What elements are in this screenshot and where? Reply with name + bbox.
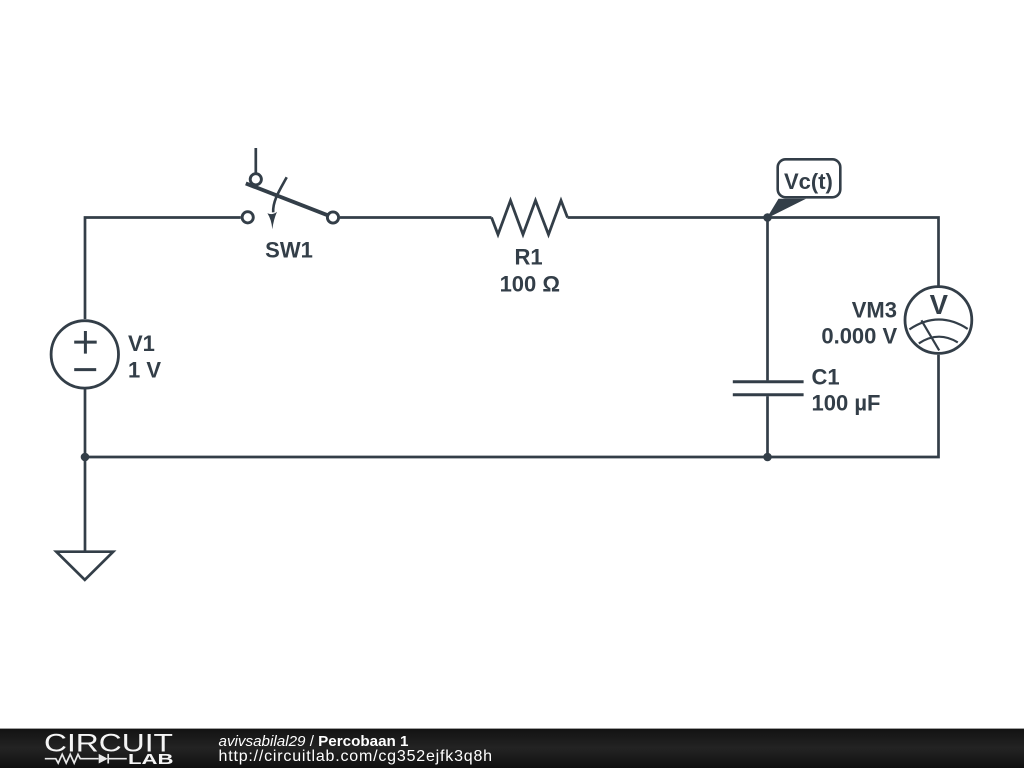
svg-text:LAB: LAB [128,752,174,768]
svg-text:VM3: VM3 [852,297,897,322]
V1 plus sign [74,331,97,354]
SW1 left terminal circle [242,212,253,223]
svg-text:100 Ω: 100 Ω [500,271,560,296]
SW1 actuation arrowhead [267,212,277,230]
voltage source V1 [51,321,118,388]
V1 minus sign [74,368,96,371]
SW1 top throw stub wire [254,148,257,173]
wire from C1 bottom plate down to bottom rail [766,396,769,457]
SW1 top terminal circle [250,174,261,185]
ground [56,552,113,580]
svg-text:http://circuitlab.com/cg352ejf: http://circuitlab.com/cg352ejfk3q8h [219,748,493,765]
VM3 meter face lower arc [919,337,958,344]
C1 bottom plate [733,393,804,396]
svg-text:0.000 V: 0.000 V [821,324,897,349]
SW1 actuator bar [246,183,328,215]
wire from SW1 right terminal to R1 left lead [340,216,492,219]
wire from R1 right lead to node Vc(t) and on to VM3 top [568,218,939,286]
svg-text:V: V [930,289,949,320]
VM3 needle [921,320,939,350]
switch SW1 [242,148,339,229]
wire from V1 top terminal up and right to SW1 left terminal [85,218,241,320]
capacitor C1 [733,382,804,395]
footer bar [0,729,1024,768]
SW1 right terminal circle [327,212,338,223]
svg-text:C1: C1 [812,365,840,390]
svg-text:V1: V1 [128,331,155,356]
SW1 actuation arrow shaft [273,177,287,212]
wire from C1 top plate up to node Vc(t) [766,218,769,381]
resistor R1 [492,201,568,235]
wire bottom rail from V1 to VM3 bottom [85,355,939,457]
C1 top plate [733,380,804,383]
svg-text:R1: R1 [515,245,543,270]
svg-text:100 µF: 100 µF [812,391,881,416]
VM3 meter face upper arc [909,320,967,330]
junction dot at C1 / bottom rail [763,453,772,462]
CircuitLab logo circuit glyph: wire + resistor + diode [45,754,127,764]
voltmeter VM3 [905,287,972,354]
node Vc(t) junction dot [763,213,772,222]
svg-text:1 V: 1 V [128,358,161,383]
svg-text:Vc(t): Vc(t) [784,169,833,194]
node flag pointer for Vc(t) [767,199,807,219]
wire from V1 bottom terminal down to ground [84,389,87,552]
junction dot at V1 / bottom rail [81,453,90,462]
svg-text:SW1: SW1 [265,238,313,263]
node flag box Vc(t) [778,159,841,197]
